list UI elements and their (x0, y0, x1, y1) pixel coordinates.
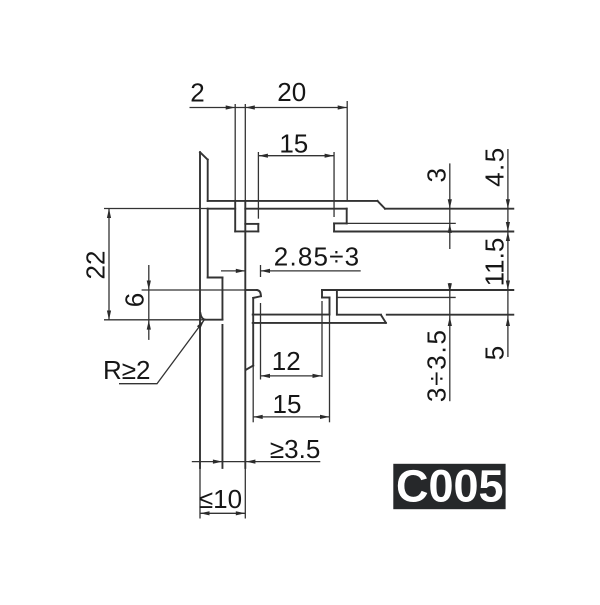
leader arrowhead R>=2 (197, 320, 204, 329)
ext line 2 left (234, 104, 236, 201)
svg-text:15: 15 (273, 389, 302, 419)
arm2 fin left edge (329, 298, 331, 315)
arrow 3-3.5 top (448, 283, 452, 293)
arm1 tip top edge (385, 208, 513, 210)
arrow 6 bottom (147, 320, 151, 330)
dim line 6 (148, 265, 150, 340)
block foot top (334, 222, 347, 224)
svg-text:20: 20 (277, 77, 306, 107)
block foot bottom and arm1 tip bottom (334, 231, 513, 233)
arm2 fin right edge (336, 290, 338, 315)
wall left edge (199, 152, 201, 468)
block foot tip edge (333, 223, 335, 231)
leg step (208, 277, 223, 279)
svg-text:11.5: 11.5 (480, 238, 510, 287)
C005 title block (393, 464, 505, 509)
leader line R>=2 (119, 320, 204, 384)
arrow 2.85-3 left (236, 269, 246, 273)
dim line 22 (108, 209, 110, 321)
dim line >=3.5 (192, 461, 320, 463)
svg-text:2: 2 (190, 78, 204, 108)
arrow 3-3.5 bottom (448, 317, 452, 327)
wall right edge lower (207, 209, 209, 278)
slab top (253, 314, 330, 316)
ext line 6 top (arm2 top extension) (142, 289, 246, 291)
ext line 22 bottom (104, 319, 205, 321)
dim line 2.85-3 right part (261, 270, 361, 272)
arrow 5 bottom (506, 317, 510, 327)
fin foot tip edge (257, 224, 259, 232)
ext line 15 bottom right (329, 314, 331, 422)
svg-text:C005: C005 (396, 461, 504, 512)
arm1 bottom edge left segment (208, 208, 236, 210)
arm1 top edge (208, 200, 378, 202)
ext line <=10 left (199, 468, 201, 519)
fin right edge and blade inner edge (244, 201, 246, 468)
ext line 22 top (104, 208, 208, 210)
svg-text:R≥2: R≥2 (103, 355, 151, 385)
arm1 bottom edge mid segment (245, 208, 346, 210)
ext line <=10 right (244, 468, 246, 519)
svg-text:≥3.5: ≥3.5 (270, 434, 320, 464)
arrow 4.5 top (506, 199, 510, 209)
hook tip underside (253, 296, 261, 298)
arrow 2 right / 20 left (245, 105, 255, 109)
block left face (346, 209, 348, 224)
ext line 15 top right (333, 152, 335, 217)
hook top edge (245, 289, 256, 291)
wall right edge upper (207, 160, 209, 201)
arrow 6 top (147, 281, 151, 291)
fin foot bottom (235, 230, 258, 232)
dim line 2.85-3 left tail (221, 270, 245, 272)
svg-text:3÷3.5: 3÷3.5 (422, 328, 452, 402)
svg-text:3: 3 (421, 168, 451, 182)
arrow 15 top right (325, 154, 334, 158)
blade jog diagonal (246, 366, 254, 370)
arrow 12 left (261, 374, 271, 378)
ext line 2 right (244, 104, 246, 201)
slab end chamfer (381, 315, 386, 323)
fin foot top (245, 223, 258, 225)
arrow 11.5 bottom (506, 281, 510, 291)
fin left edge (234, 201, 236, 232)
svg-text:12: 12 (272, 346, 301, 376)
arrow 4.5 bottom (506, 222, 510, 232)
dim line 15 top (258, 155, 334, 157)
arrow 3 top (448, 199, 452, 209)
arrow 2.85-3 right (261, 269, 271, 273)
leg right edge lower (221, 325, 223, 468)
arrow 3 bottom (448, 223, 452, 233)
dim line 15 bottom (253, 416, 329, 418)
ext line 15 top left (257, 152, 259, 219)
ext line 3-3.5 upper ref (337, 296, 456, 298)
dim line <=10 (200, 512, 245, 514)
arrow <=10 left (200, 511, 210, 515)
arm2 box bottom (322, 297, 330, 299)
arm2 box top and block top (322, 289, 513, 291)
arrow >=3.5 right (246, 460, 256, 464)
block bottom right part (387, 314, 514, 316)
ext line 20 right (346, 101, 348, 201)
ext line 12 left (260, 303, 262, 380)
leg cavity bottom with fillet (200, 313, 222, 320)
blade outer edge (252, 298, 254, 366)
arrow 22 top (107, 209, 111, 219)
svg-text:6: 6 (120, 293, 150, 307)
arm1 right chamfer (378, 201, 386, 209)
arrow 22 bottom (107, 311, 111, 321)
arrow <=10 right (236, 511, 246, 515)
dim line 3 (449, 163, 451, 249)
arrow 12 right (313, 374, 323, 378)
arrow 20 right (338, 105, 348, 109)
arrowheads group (107, 105, 510, 515)
svg-text:2.85÷3: 2.85÷3 (274, 241, 361, 271)
hook rounded corner (257, 290, 261, 296)
ext line 3 lower ref (347, 222, 456, 224)
arm2 box left edge (321, 290, 323, 298)
dim line 12 (261, 375, 323, 377)
arrow 15 top left (258, 154, 268, 158)
svg-text:15: 15 (279, 128, 308, 158)
arrow 15 bottom right (320, 415, 330, 419)
arrow 11.5 top (506, 232, 510, 242)
dim line right column (507, 149, 509, 357)
dim line 2 and 20 (190, 107, 348, 109)
ext line 12 right (321, 301, 323, 377)
leg right edge upper (221, 278, 223, 320)
wall top chamfer (200, 152, 208, 159)
arrow 2 left (226, 105, 236, 109)
arrow 15 bottom left (253, 415, 263, 419)
svg-text:≤10: ≤10 (199, 484, 242, 514)
dimension and extension lines group (104, 101, 508, 519)
svg-text:22: 22 (81, 251, 111, 280)
block bottom left part (337, 314, 381, 316)
svg-text:4.5: 4.5 (480, 146, 510, 187)
slab bottom (253, 322, 386, 324)
svg-text:5: 5 (480, 346, 510, 360)
profile outline group (200, 152, 513, 468)
dim line 3-3.5 (449, 283, 451, 401)
ext line 15 bottom left (blade extension) (252, 366, 254, 423)
arrow >=3.5 left (213, 460, 223, 464)
ext line 2.85-3 right ref upper (260, 265, 262, 277)
